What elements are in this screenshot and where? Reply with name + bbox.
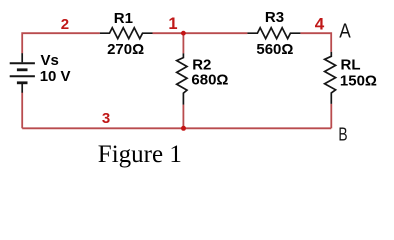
resistor R1	[100, 28, 153, 39]
svg-text:R3: R3	[265, 9, 284, 26]
wire bottom rail (node 3)	[22, 127, 331, 129]
svg-text:RL: RL	[341, 57, 361, 74]
resistor R2	[177, 53, 187, 104]
svg-text:A: A	[339, 21, 351, 43]
wire top-right (node 4): R3 to corner A, down to RL	[300, 33, 331, 52]
svg-text:R1: R1	[114, 10, 133, 27]
svg-text:1: 1	[168, 15, 177, 33]
wire top-middle (node 1): R1 to R3	[153, 32, 248, 34]
wire battery bottom to bottom rail	[21, 93, 23, 129]
svg-text:10 V: 10 V	[40, 68, 71, 85]
junction node 1 dot	[181, 31, 186, 36]
svg-text:270Ω: 270Ω	[107, 41, 144, 58]
svg-text:150Ω: 150Ω	[340, 72, 377, 89]
resistor RL	[325, 52, 336, 104]
svg-text:B: B	[338, 123, 347, 144]
svg-text:2: 2	[61, 16, 69, 33]
wire RL bottom stub	[330, 104, 332, 128]
junction node 3 dot	[181, 126, 186, 131]
battery Vs	[10, 53, 35, 92]
svg-text:Figure 1: Figure 1	[98, 141, 182, 168]
wire top-left (node 2): battery top to R1	[22, 33, 100, 53]
resistor R3	[247, 28, 300, 39]
svg-text:4: 4	[315, 15, 325, 34]
svg-text:Vs: Vs	[41, 52, 59, 69]
wire R2 bottom stub	[182, 105, 184, 129]
wire R2 top stub	[182, 33, 184, 53]
svg-text:3: 3	[102, 110, 110, 127]
svg-text:680Ω: 680Ω	[191, 72, 228, 89]
svg-text:560Ω: 560Ω	[256, 41, 293, 58]
